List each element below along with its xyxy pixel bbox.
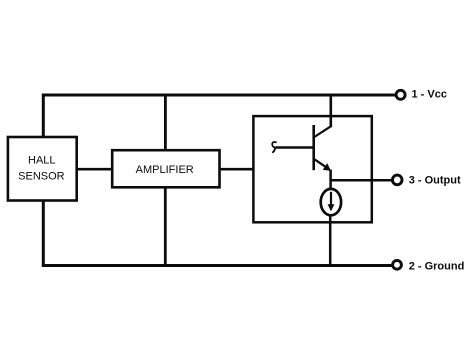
wire: base lead	[276, 146, 314, 148]
amplifier block U2	[112, 150, 219, 187]
svg-text:1 - Vcc: 1 - Vcc	[412, 89, 447, 101]
transistor Q1 emitter diagonal	[314, 159, 327, 168]
wire: top rail down to hall sensor	[42, 94, 45, 138]
svg-text:2 - Ground: 2 - Ground	[409, 260, 465, 272]
hall sensor block U1	[8, 137, 77, 201]
wire: ground bottom rail	[42, 264, 392, 267]
svg-text:HALL: HALL	[28, 154, 56, 166]
terminal pin 1 (Vcc)	[396, 90, 405, 99]
svg-text:AMPLIFIER: AMPLIFIER	[136, 164, 194, 176]
transistor Q1 emitter arrowhead	[323, 163, 331, 171]
wire: output node to pin 3	[331, 179, 392, 182]
wire: emitter down to output node	[329, 170, 332, 191]
output stage enclosure box	[253, 116, 371, 222]
svg-text:SENSOR: SENSOR	[18, 170, 65, 182]
wire: Vcc top rail	[42, 94, 396, 97]
terminal pin 2 (Ground)	[393, 260, 402, 269]
wire: hall sensor to amplifier	[77, 168, 113, 171]
wire: current source down to ground rail	[329, 215, 332, 267]
wire: top rail down to collector	[329, 94, 332, 128]
svg-text:3 - Output: 3 - Output	[409, 175, 461, 187]
wire: amplifier to output stage box	[220, 168, 254, 171]
wire: amplifier down to ground rail	[164, 187, 167, 267]
terminal pin 3 (Output)	[392, 175, 402, 185]
transistor Q1	[272, 125, 331, 171]
wire: hall sensor down to ground rail	[42, 200, 45, 267]
wire: top rail down to amplifier	[164, 94, 167, 151]
squiggle at base lead start	[272, 142, 276, 147]
transistor Q1 base bar	[312, 125, 315, 170]
transistor Q1 collector diagonal	[314, 126, 331, 137]
current source I1	[321, 189, 341, 215]
